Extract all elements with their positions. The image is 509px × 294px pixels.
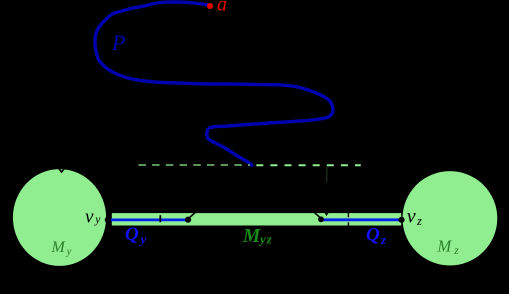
tick on Q_y: [159, 215, 161, 222]
endpoint dot right: [318, 216, 324, 222]
segment Q_y (blue): [108, 218, 188, 221]
svg-text:Q: Q: [366, 225, 380, 246]
disc M_y: [13, 169, 106, 266]
svg-text:y: y: [139, 232, 147, 247]
svg-text:z: z: [416, 214, 422, 228]
curve P (path from a down to dashed line): [95, 2, 333, 165]
svg-text:M: M: [51, 239, 67, 256]
whisker right: [314, 212, 320, 217]
svg-text:z: z: [453, 245, 459, 257]
faint drop line from dashed line to Q_z point: [326, 167, 328, 183]
dashed line (thin left part): [138, 164, 250, 166]
whisker left: [190, 212, 197, 218]
svg-text:P: P: [111, 30, 125, 55]
speck on M_y edge: [83, 174, 85, 176]
svg-text:y: y: [66, 245, 72, 257]
notch on band top edge: [325, 213, 328, 215]
svg-text:a: a: [217, 0, 227, 16]
svg-text:M: M: [242, 226, 261, 247]
svg-text:y: y: [94, 214, 101, 226]
svg-text:z: z: [380, 232, 387, 247]
svg-text:v: v: [85, 206, 94, 227]
svg-text:M: M: [437, 236, 453, 255]
segment Q_z (blue): [321, 218, 402, 221]
vertex v_y: [105, 217, 111, 223]
point a (red dot): [207, 3, 213, 9]
endpoint dot left: [185, 217, 191, 223]
vertex v_z: [398, 217, 404, 223]
dashed line (thick right part): [256, 164, 361, 166]
svg-text:v: v: [407, 206, 416, 228]
tick on Q_z (top stub): [347, 212, 349, 217]
disc M_z: [403, 171, 498, 265]
svg-text:yz: yz: [258, 232, 273, 247]
tick on Q_z (bottom stub): [347, 222, 349, 226]
band M_yz: [112, 213, 401, 225]
svg-text:Q: Q: [125, 224, 139, 245]
notch on M_y top: [59, 168, 65, 172]
